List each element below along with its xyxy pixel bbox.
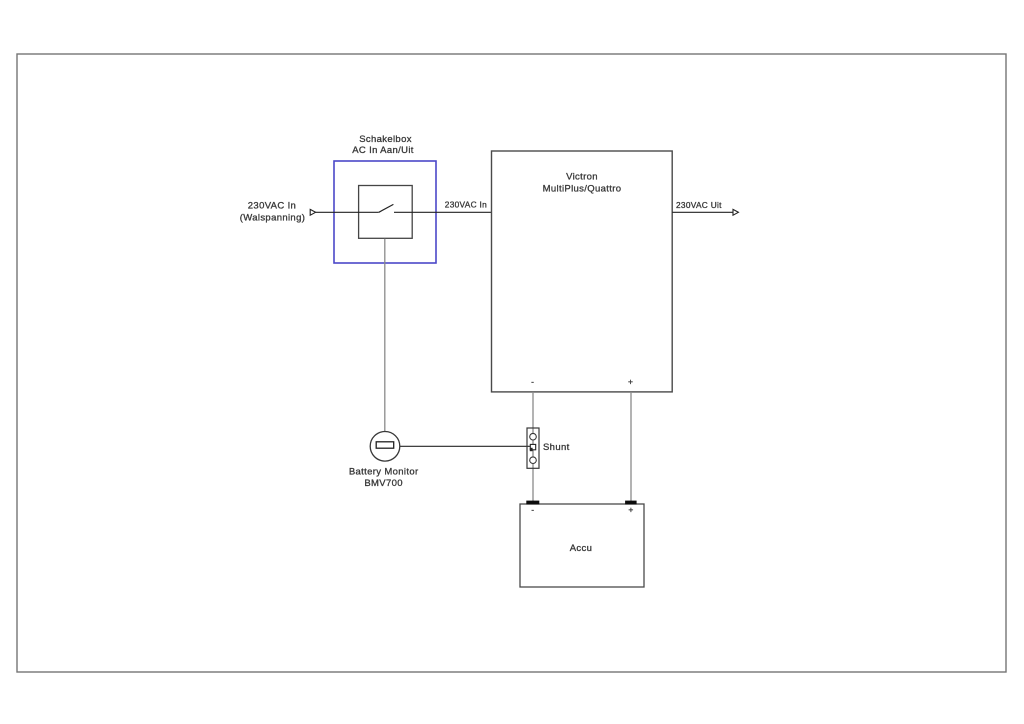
shunt R1 <box>527 428 539 468</box>
svg-text:230VAC In: 230VAC In <box>445 199 487 209</box>
input arrow 230VAC In <box>310 209 315 215</box>
svg-text:Accu: Accu <box>570 543 593 554</box>
svg-text:+: + <box>628 505 633 515</box>
svg-text:-: - <box>531 377 534 387</box>
wire DC minus (inverter to shunt to battery) <box>532 392 534 501</box>
svg-text:MultiPlus/Quattro: MultiPlus/Quattro <box>543 184 622 195</box>
wire DC plus (inverter to battery) <box>630 392 632 501</box>
svg-text:+: + <box>628 377 633 387</box>
svg-text:Shunt: Shunt <box>543 442 570 453</box>
battery Accu body <box>520 504 644 587</box>
svg-text:BMV700: BMV700 <box>364 478 403 489</box>
svg-text:230VAC Uit: 230VAC Uit <box>676 200 722 210</box>
svg-text:AC In Aan/Uit: AC In Aan/Uit <box>352 145 414 156</box>
output arrow 230VAC Uit <box>733 209 738 215</box>
inverter U1 Victron MultiPlus/Quattro <box>492 151 673 392</box>
wire switch to Victron AC in <box>394 211 492 213</box>
svg-text:Victron: Victron <box>566 171 598 182</box>
battery monitor BMV700 <box>370 432 400 462</box>
wire AC input to switch <box>316 211 379 213</box>
svg-text:(Walspanning): (Walspanning) <box>240 213 305 224</box>
battery terminal plus <box>625 501 637 505</box>
label Schakelbox / AC In Aan/Uit <box>352 134 414 156</box>
wire AC out <box>672 211 733 213</box>
wire switch to battery monitor <box>384 239 386 432</box>
label Battery Monitor BMV700 <box>349 467 419 489</box>
switch SW1 blade <box>379 204 394 212</box>
wire battery monitor to shunt <box>400 445 531 447</box>
enclosure Schakelbox (blue box) <box>334 161 436 263</box>
svg-text:Schakelbox: Schakelbox <box>359 134 412 145</box>
switch SW1 body <box>359 186 413 239</box>
svg-text:230VAC In: 230VAC In <box>248 201 296 212</box>
battery terminal minus <box>526 501 539 505</box>
svg-text:Battery Monitor: Battery Monitor <box>349 467 419 478</box>
svg-text:-: - <box>531 505 534 515</box>
label 230VAC In (Walspanning) <box>240 201 305 224</box>
